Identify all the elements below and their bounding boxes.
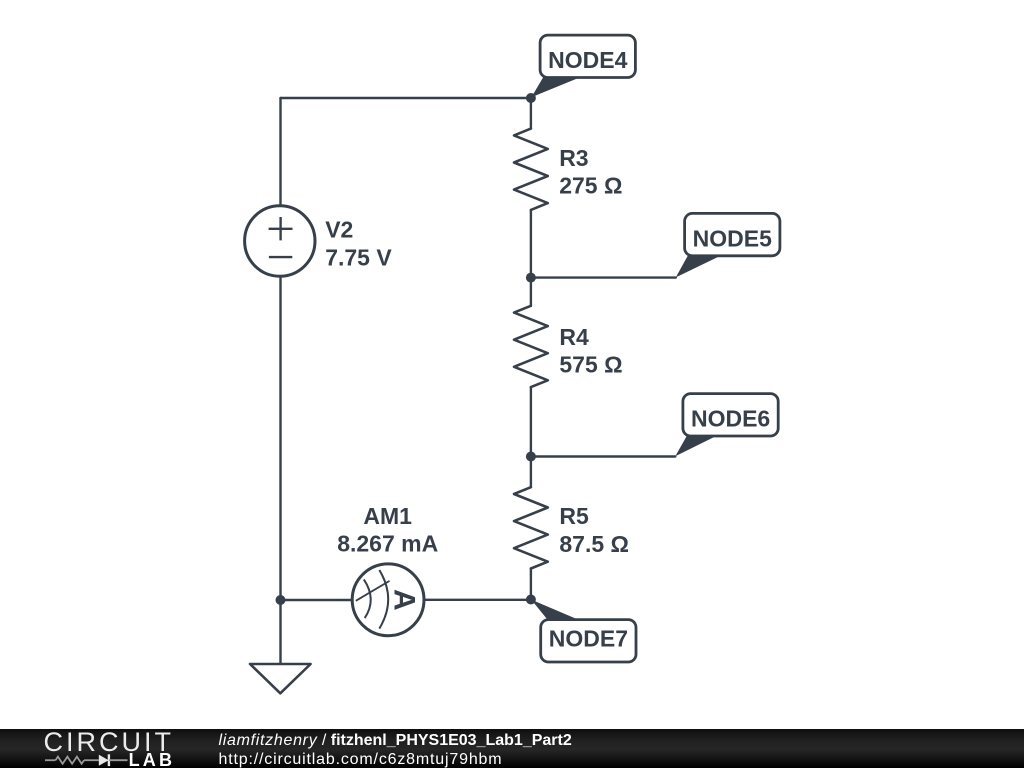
svg-text:NODE7: NODE7: [549, 626, 628, 652]
wire right vertical lead above R3: [530, 98, 532, 129]
voltage source V2 circle: [245, 206, 315, 276]
svg-text:NODE4: NODE4: [548, 47, 627, 73]
wire ground stem: [279, 600, 281, 664]
node junction dot NODE7: [526, 595, 536, 605]
svg-text:R4: R4: [559, 324, 589, 350]
wire lead above R4: [530, 278, 532, 306]
svg-text:http://circuitlab.com/c6z8mtuj: http://circuitlab.com/c6z8mtuj79hbm: [219, 751, 503, 768]
svg-text:87.5 Ω: 87.5 Ω: [559, 531, 629, 557]
resistor R5 zigzag: [514, 487, 548, 568]
svg-text:R5: R5: [559, 503, 589, 529]
logo wire out: [109, 759, 128, 761]
svg-text:NODE6: NODE6: [691, 406, 770, 432]
logo wire middle: [84, 759, 99, 761]
svg-text:LAB: LAB: [129, 750, 176, 768]
wire lead below R5 to NODE7 junction: [530, 569, 532, 600]
V2 plus sign: [269, 217, 293, 240]
svg-text:R3: R3: [559, 145, 588, 171]
svg-text:NODE5: NODE5: [693, 225, 772, 251]
wire ammeter to NODE7 junction: [424, 599, 531, 601]
wire lead below R3 to NODE5 junction: [530, 210, 532, 278]
logo diode triangle: [99, 755, 109, 766]
node flag NODE7 box: [541, 620, 636, 662]
logo wire lead-in: [45, 759, 56, 761]
node junction dot NODE4: [526, 93, 536, 103]
svg-text:575 Ω: 575 Ω: [559, 352, 622, 378]
wire NODE5 horizontal: [531, 276, 676, 278]
wire lead below R4 to NODE6 junction: [530, 387, 532, 456]
svg-text:A: A: [388, 589, 421, 611]
svg-text:AM1: AM1: [363, 503, 412, 529]
wire left vertical above V2: [279, 98, 281, 205]
V2 minus sign: [269, 256, 292, 258]
node flag NODE5 box: [685, 213, 780, 255]
footer bar: [0, 729, 1024, 768]
wire bottom-left node to ammeter: [281, 599, 353, 601]
svg-text:liamfitzhenry / fitzhenl_PHYS1: liamfitzhenry / fitzhenl_PHYS1E03_Lab1_P…: [219, 732, 572, 749]
svg-text:V2: V2: [325, 217, 353, 243]
ammeter needle: [356, 581, 390, 601]
resistor R4 zigzag: [514, 306, 548, 387]
node junction dot ground branch: [276, 595, 286, 605]
node junction dot NODE6: [526, 452, 536, 462]
svg-text:8.267 mA: 8.267 mA: [337, 530, 438, 556]
ammeter dial arc large: [379, 570, 388, 629]
node flag NODE6 box: [683, 394, 778, 436]
resistor R3 zigzag: [514, 129, 548, 210]
logo resistor zigzag: [56, 757, 85, 764]
node junction dot NODE5: [526, 273, 536, 283]
ammeter dial arc small: [364, 579, 371, 618]
node flag NODE5 tail: [676, 256, 721, 278]
wire left vertical below V2: [279, 277, 281, 600]
svg-text:275 Ω: 275 Ω: [559, 173, 622, 199]
logo diode cathode bar: [108, 754, 110, 766]
node flag NODE6 tail: [675, 435, 719, 457]
wire top horizontal from V2 branch to NODE4 junction: [281, 97, 531, 99]
node flag NODE7 tail: [531, 600, 580, 621]
svg-text:7.75 V: 7.75 V: [325, 245, 392, 271]
node flag NODE4 box: [540, 35, 635, 77]
wire lead above R5: [530, 457, 532, 488]
node flag NODE4 tail: [531, 77, 580, 97]
wire NODE6 horizontal: [531, 455, 675, 457]
ground symbol: [250, 664, 311, 693]
ammeter AM1 circle: [352, 564, 424, 636]
